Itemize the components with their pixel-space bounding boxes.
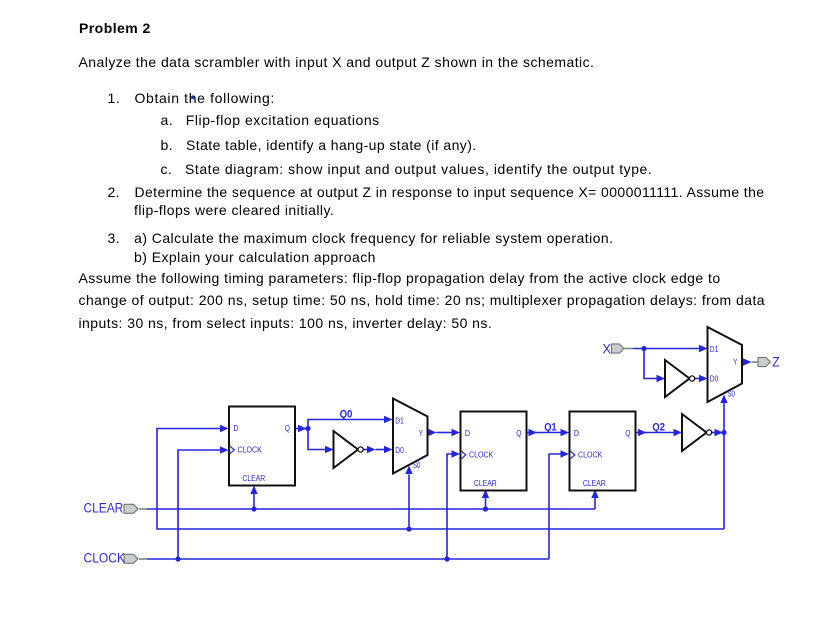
svg-text:Q2: Q2: [652, 421, 665, 433]
svg-text:Q1: Q1: [544, 421, 556, 433]
svg-text:Z: Z: [772, 355, 779, 370]
svg-text:CLOCK: CLOCK: [84, 550, 126, 565]
svg-text:X: X: [602, 341, 611, 356]
svg-text:CLEAR: CLEAR: [84, 500, 124, 515]
svg-text:Q0: Q0: [340, 409, 353, 421]
